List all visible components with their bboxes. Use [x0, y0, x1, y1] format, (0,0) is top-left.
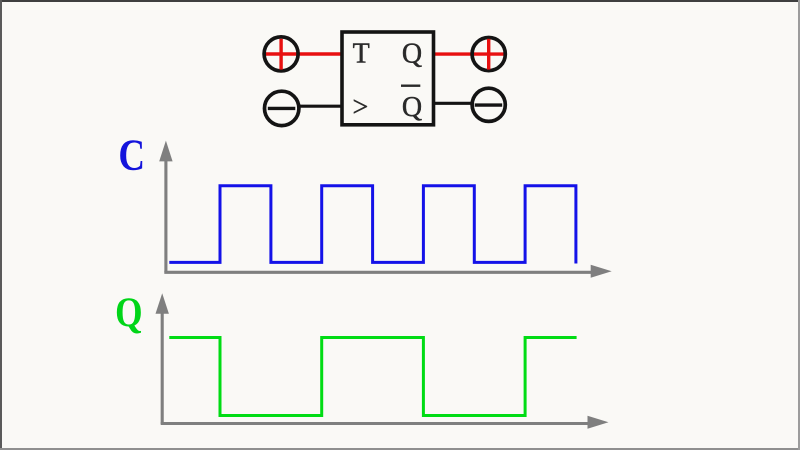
- svg-text:Q: Q: [115, 289, 142, 336]
- label Q (output trace name): [115, 289, 142, 336]
- wire T input (red): [266, 52, 343, 55]
- terminal minus right (Qbar low indicator): [472, 88, 505, 121]
- wire Qbar output (black): [434, 102, 474, 105]
- terminal minus left (logic-0): [265, 91, 299, 125]
- frame edge top: [0, 0, 800, 2]
- C graph horizontal axis: [164, 265, 611, 278]
- svg-text:Q: Q: [402, 92, 422, 123]
- pin label Q: [402, 38, 422, 69]
- C graph vertical axis: [159, 141, 172, 273]
- terminal plus left (logic-1 source): [264, 37, 298, 71]
- pin label T: [353, 38, 370, 69]
- pin label Qbar: [401, 85, 422, 124]
- Q graph vertical axis: [156, 293, 169, 424]
- Q graph horizontal axis: [161, 416, 609, 429]
- output waveform Q (green square wave): [169, 338, 576, 416]
- terminal plus right (Q high indicator): [472, 38, 505, 71]
- wire Q output (red): [434, 52, 505, 55]
- svg-text:C: C: [118, 131, 145, 180]
- clock pin chevron: [353, 92, 369, 123]
- frame edge right: [798, 0, 800, 450]
- flip-flop U1 (T flip-flop body): [342, 32, 434, 125]
- clock waveform C (blue square wave): [169, 186, 576, 264]
- wire clock input (black): [297, 105, 342, 108]
- label C (clock trace name): [118, 131, 145, 180]
- frame edge bottom: [0, 448, 800, 450]
- svg-text:Q: Q: [402, 38, 422, 69]
- frame edge left: [0, 0, 2, 450]
- svg-text:T: T: [353, 38, 370, 69]
- svg-text:>: >: [353, 92, 369, 123]
